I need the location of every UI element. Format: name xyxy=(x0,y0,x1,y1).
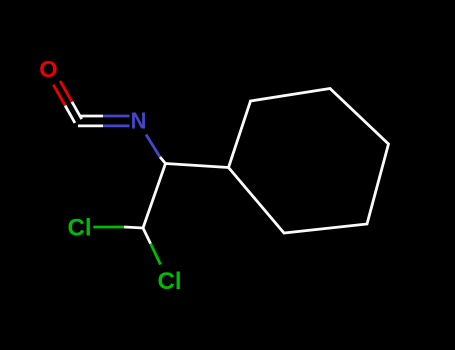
wire C3-Cl2 bond carbon half xyxy=(143,228,151,244)
wire C2-C3 bond xyxy=(143,164,166,229)
wire C3-Cl1 bond green half xyxy=(93,226,124,229)
ring cyclohexane xyxy=(229,89,389,234)
svg-text:Cl: Cl xyxy=(158,268,182,295)
wire N-C2 bond carbon half xyxy=(160,157,166,164)
svg-text:N: N xyxy=(131,108,147,134)
wire C=N double bond carbon halves xyxy=(78,116,103,126)
wire N-C2 bond blue half xyxy=(146,135,160,158)
wire C=N double bond blue halves xyxy=(103,116,130,126)
wire C3-Cl2 bond green half xyxy=(151,244,161,265)
wire C2-ring bond xyxy=(166,164,229,168)
svg-text:O: O xyxy=(39,56,57,82)
svg-text:Cl: Cl xyxy=(68,215,92,242)
wire C3-Cl1 bond carbon half xyxy=(124,227,143,228)
wire O=C double bond carbon halves xyxy=(65,102,82,123)
wire O=C double bond red halves xyxy=(53,81,72,106)
